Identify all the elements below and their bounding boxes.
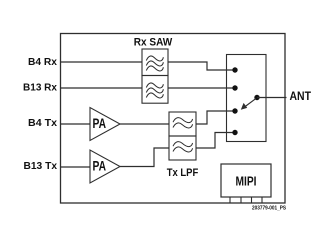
filter Rx SAW B13 (bottom) [142, 76, 168, 104]
svg-text:203779-001_PS: 203779-001_PS [252, 206, 286, 212]
MIPI pin stub 3 [251, 197, 253, 203]
wire SAW B4 output to switch [168, 62, 235, 70]
svg-text:B4 Tx: B4 Tx [28, 117, 57, 129]
wire SAW B13 output to switch [168, 87, 235, 89]
switch arm with arrow [241, 99, 256, 110]
MIPI pin stub 4 [261, 197, 263, 203]
wire Tx LPF B13 output to switch [196, 133, 235, 149]
svg-text:MIPI: MIPI [236, 175, 257, 189]
svg-text:ANT: ANT [290, 91, 312, 103]
svg-text:PA: PA [93, 115, 107, 131]
svg-text:PA: PA [93, 158, 107, 174]
filter Tx LPF B13 (bottom) [169, 136, 196, 160]
svg-text:Rx SAW: Rx SAW [134, 37, 173, 49]
switch throw contact 1 [232, 67, 237, 72]
switch throw contact 2 [232, 85, 237, 90]
wire B4 Rx input [61, 61, 143, 63]
antenna switch box [227, 55, 267, 142]
wire PA1 output to Tx LPF [120, 123, 169, 125]
MIPI pin stub 1 [229, 197, 231, 203]
MIPI pin stub 2 [240, 197, 242, 203]
amplifier PA2 (B13 Tx) [90, 150, 120, 183]
wire B4 Tx input [61, 123, 91, 125]
filter Tx LPF B4 (top) [169, 112, 196, 136]
wire B13 Rx input [61, 87, 143, 89]
switch throw contact 3 [232, 108, 237, 113]
filter Rx SAW B4 (top) [142, 49, 168, 76]
outer module box [61, 34, 286, 204]
switch throw contact 4 [232, 130, 237, 135]
wire ANT output [257, 97, 287, 99]
wire PA2 output to Tx LPF [120, 148, 169, 167]
svg-text:Tx LPF: Tx LPF [167, 167, 199, 179]
svg-text:B4 Rx: B4 Rx [28, 56, 57, 68]
svg-text:B13 Tx: B13 Tx [24, 160, 58, 172]
MIPI block [221, 164, 271, 197]
wire Tx LPF B4 output to switch [196, 111, 235, 124]
switch common pole contact [254, 95, 259, 100]
svg-text:B13 Rx: B13 Rx [23, 82, 57, 94]
wire B13 Tx input [61, 166, 91, 168]
amplifier PA1 (B4 Tx) [90, 108, 120, 141]
